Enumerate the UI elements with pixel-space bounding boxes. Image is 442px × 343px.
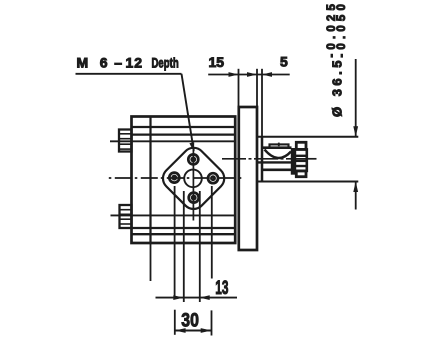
pump body outline <box>132 117 236 244</box>
extension left bolt <box>174 186 176 299</box>
shaft centerline <box>222 158 307 160</box>
dia 36.5 dimension line upper <box>355 59 357 137</box>
arrow at 238.5 <box>229 72 239 77</box>
leader underline M6 <box>76 73 182 75</box>
mounting flange plate <box>239 107 257 250</box>
dia 36.5 dimension line lower <box>355 182 357 210</box>
arrow down <box>353 126 358 137</box>
svg-text:13: 13 <box>215 278 228 299</box>
arrow 13 right <box>200 295 210 300</box>
svg-text:Ø 36.5: Ø 36.5 <box>329 61 344 118</box>
arrow up <box>353 182 358 193</box>
body top port line 2 <box>132 133 236 135</box>
svg-text:-0.050: -0.050 <box>336 4 348 58</box>
leader arrowhead <box>189 142 194 152</box>
body top port line 1 <box>132 126 236 128</box>
woodruff key <box>270 144 289 147</box>
arrow 13 left <box>173 295 183 300</box>
bolt hole bottom <box>189 193 199 203</box>
bottom bolt centerline <box>111 214 236 216</box>
arrow 30 left <box>175 328 186 333</box>
arrow at 257 <box>247 72 257 77</box>
arrow 30 right <box>201 328 212 333</box>
extension line flange right <box>256 69 258 107</box>
bolt pattern vertical centerline <box>192 150 194 221</box>
svg-text:M6–12Depth: M6–12Depth <box>77 55 179 71</box>
body rear cover line <box>149 117 151 244</box>
nut body <box>295 149 307 171</box>
dim line 13 <box>156 297 238 299</box>
svg-text:15: 15 <box>209 54 225 70</box>
bottom rear bolt head <box>120 205 132 228</box>
pilot boss right face <box>261 137 264 182</box>
pilot boss bottom edge / extension line <box>257 181 358 183</box>
shaft bottom edge <box>262 168 292 171</box>
shaft nut washer face <box>291 149 295 175</box>
nut bottom corner <box>296 171 306 177</box>
top bolt centerline <box>110 140 235 142</box>
bolt hole right <box>208 173 218 183</box>
svg-text:5: 5 <box>280 54 288 70</box>
nut thread ridge 2 <box>295 160 307 162</box>
extension right bolt <box>211 186 213 279</box>
extension hole right <box>199 191 201 302</box>
bolt hole top <box>188 154 198 164</box>
body bottom port line 1 <box>132 227 236 229</box>
woodruff keyseat arc <box>265 150 292 159</box>
body bottom port line 2 <box>132 233 236 235</box>
dim line 30 <box>175 330 212 332</box>
nut top corner <box>296 142 306 149</box>
extension hole left <box>183 191 185 302</box>
arrow at 262 <box>262 72 272 77</box>
key tick <box>278 143 280 147</box>
nut thread ridge 3 <box>295 165 307 167</box>
top dimension line <box>208 74 290 76</box>
shaft top edge <box>262 146 292 149</box>
svg-text:30: 30 <box>181 311 199 332</box>
hanging line below body <box>150 243 152 281</box>
extension line boss right <box>261 69 263 137</box>
main horizontal centerline <box>109 177 245 179</box>
top rear bolt head <box>119 130 132 152</box>
nut thread ridge 1 <box>295 155 307 157</box>
pilot boss top edge / extension line <box>257 136 358 138</box>
extension line flange left <box>238 69 240 107</box>
bolt hole left <box>169 173 179 183</box>
central shaft hole <box>184 170 202 188</box>
shaft mid line <box>258 161 293 163</box>
leader line to top bolt <box>182 74 194 151</box>
flange face diamond outline <box>158 143 229 214</box>
